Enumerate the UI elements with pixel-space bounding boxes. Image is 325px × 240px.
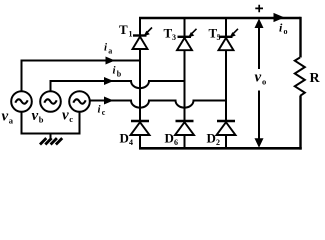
label va [2, 109, 14, 126]
wire leg B (T3 to D6) [184, 50, 186, 120]
label ic [98, 104, 106, 118]
svg-text:D: D [207, 131, 216, 146]
wire phase c (vc to node C, hops over legs A and B) [90, 101, 226, 108]
label io [279, 21, 288, 37]
arrow ic [104, 97, 114, 105]
svg-text:v: v [62, 108, 69, 124]
svg-text:v: v [255, 70, 262, 86]
svg-text:c: c [102, 108, 106, 117]
svg-text:c: c [69, 114, 73, 124]
label vo [255, 70, 267, 87]
diode D2 [217, 121, 236, 149]
svg-text:R: R [310, 71, 321, 86]
wire right bus bottom (from R) [299, 96, 301, 150]
svg-text:1: 1 [129, 30, 133, 39]
svg-text:5: 5 [217, 33, 221, 42]
wire neutral (source returns) [22, 112, 80, 134]
svg-text:o: o [262, 77, 266, 87]
svg-text:3: 3 [172, 33, 176, 42]
label D6 [165, 131, 179, 148]
svg-text:2: 2 [216, 138, 220, 147]
svg-text:a: a [9, 116, 14, 126]
svg-text:a: a [108, 47, 112, 56]
svg-text:D: D [120, 131, 129, 146]
svg-text:b: b [39, 115, 44, 125]
wire right bus top (to R) [299, 17, 301, 58]
wire bottom bus (-) [139, 147, 302, 150]
label R [310, 71, 321, 86]
diode D6 [175, 121, 194, 149]
thyristor T1 [133, 17, 153, 49]
ground [40, 134, 62, 145]
diode D4 [131, 121, 150, 149]
label vc [62, 108, 73, 125]
svg-text:o: o [284, 27, 288, 36]
wire phase b (vb to node B, hop over leg A) [51, 81, 185, 92]
label D2 [207, 131, 221, 148]
svg-text:6: 6 [174, 138, 178, 147]
wire top bus (+) [139, 17, 301, 19]
thyristor T5 [219, 17, 239, 50]
arrow ia [106, 57, 116, 65]
wire phase a (va to node A) [22, 61, 141, 92]
svg-text:v: v [2, 109, 9, 125]
arrow ib [104, 77, 114, 85]
svg-text:4: 4 [129, 138, 133, 147]
svg-text:v: v [32, 108, 39, 124]
label ib [113, 65, 122, 79]
source vb [40, 91, 61, 112]
label + (plus) [255, 5, 263, 12]
resistor R [295, 58, 305, 96]
thyristor T3 [177, 17, 197, 50]
wire leg A (T1 to D4) [139, 49, 141, 121]
svg-text:D: D [165, 131, 174, 146]
svg-text:b: b [117, 70, 122, 79]
svg-text:T: T [119, 22, 128, 37]
arrow vo up (to + bus) [255, 19, 264, 70]
source vc [69, 91, 90, 112]
label T1 [119, 22, 133, 39]
label D4 [120, 131, 134, 148]
arrow vo down (to - bus) [255, 91, 264, 148]
label vb [32, 108, 44, 125]
source va [11, 91, 32, 112]
label T5 [209, 26, 221, 43]
wire leg C (T5 to D2) [225, 50, 227, 120]
label ia [104, 42, 112, 56]
arrow io (on top bus) [274, 13, 285, 22]
label T3 [164, 26, 177, 43]
